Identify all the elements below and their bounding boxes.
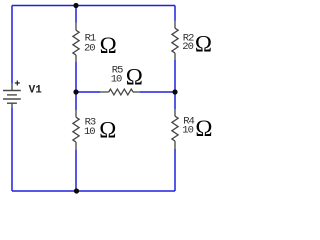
wire mid-row right (R5 to mid-right node) bbox=[140, 91, 175, 93]
svg-text:Ω: Ω bbox=[195, 32, 212, 57]
label R4 value 10 ohm bbox=[182, 116, 212, 141]
junction node bottom (x=76,y=191) bbox=[74, 188, 79, 193]
junction node mid-right (x=175,y=92) bbox=[172, 89, 177, 94]
battery V1 bbox=[3, 81, 21, 109]
resistor R5 bbox=[100, 89, 140, 95]
svg-text:10: 10 bbox=[84, 126, 95, 138]
svg-text:20: 20 bbox=[182, 41, 193, 53]
wire middle vertical bottom (R3 to bottom node) bbox=[75, 150, 77, 191]
resistor R3 bbox=[73, 110, 79, 150]
wire right upper (top node to R2) bbox=[174, 6, 176, 21]
wire middle vertical mid (R1 to mid node) bbox=[75, 62, 77, 92]
wire left upper (battery + to top) bbox=[11, 6, 13, 84]
svg-text:10: 10 bbox=[111, 74, 122, 86]
wire mid-row left (mid node to R5) bbox=[76, 91, 100, 93]
svg-text:Ω: Ω bbox=[100, 33, 117, 58]
svg-text:Ω: Ω bbox=[195, 116, 212, 141]
wire middle vertical lower-a (mid node to R3) bbox=[75, 92, 77, 110]
resistor R2 bbox=[172, 21, 178, 61]
label R5 value 10 ohm bbox=[111, 64, 143, 89]
svg-text:Ω: Ω bbox=[126, 64, 143, 89]
resistor R1 bbox=[73, 23, 79, 63]
wire bottom (node 0) bbox=[12, 190, 175, 192]
svg-text:V1: V1 bbox=[29, 84, 43, 96]
label R3 value 10 ohm bbox=[84, 117, 116, 143]
wire right bottom (R4 to bottom node) bbox=[174, 149, 176, 191]
svg-text:Ω: Ω bbox=[99, 117, 116, 142]
resistor R4 bbox=[172, 109, 178, 149]
wire top (node 1) bbox=[12, 5, 175, 7]
junction node top (x=76) bbox=[73, 3, 78, 8]
wire right mid (R2 to mid-right node) bbox=[174, 60, 176, 92]
junction node mid-left (x=76,y=92) bbox=[73, 89, 78, 94]
svg-text:20: 20 bbox=[84, 43, 95, 55]
label R1 value 20 ohm bbox=[84, 33, 117, 59]
wire right lower-a (mid-right node to R4) bbox=[174, 92, 176, 109]
wire middle vertical upper (top node to R1) bbox=[75, 6, 77, 23]
label R2 value 20 ohm bbox=[182, 32, 212, 57]
svg-text:10: 10 bbox=[182, 125, 193, 137]
wire left lower (battery - to bottom) bbox=[11, 108, 13, 191]
